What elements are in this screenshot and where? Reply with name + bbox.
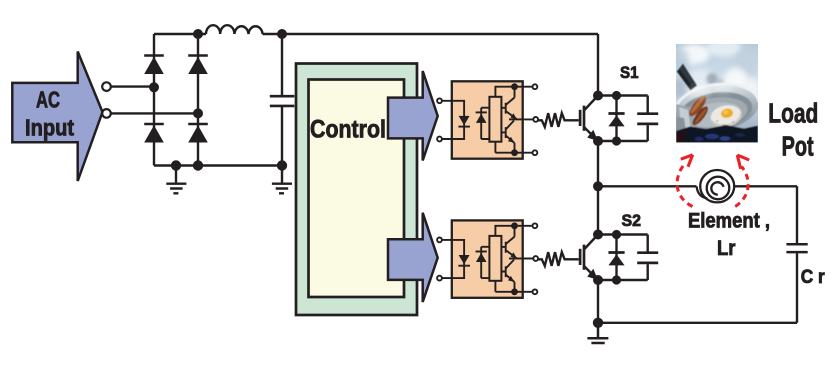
svg-text:S2: S2: [622, 212, 642, 230]
svg-text:Input: Input: [25, 115, 74, 141]
svg-text:Element ,: Element ,: [688, 209, 770, 233]
svg-text:AC: AC: [36, 87, 60, 113]
svg-text:Pot: Pot: [782, 131, 814, 162]
svg-text:Load: Load: [768, 98, 818, 129]
svg-text:Lr: Lr: [717, 236, 736, 260]
svg-text:Control: Control: [310, 116, 386, 144]
svg-text:S1: S1: [620, 64, 639, 82]
svg-text:C r: C r: [801, 267, 826, 288]
